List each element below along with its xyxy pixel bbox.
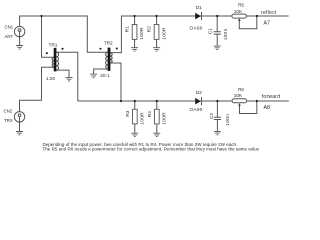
svg-text:D2: D2: [196, 90, 202, 95]
svg-text:A7: A7: [264, 21, 271, 27]
svg-text:100R: 100R: [139, 27, 145, 40]
svg-text:C2: C2: [209, 113, 215, 119]
svg-text:1:20: 1:20: [46, 76, 56, 81]
svg-text:A8: A8: [264, 105, 271, 111]
svg-text:R3: R3: [125, 110, 131, 116]
svg-text:ANT: ANT: [5, 34, 14, 39]
svg-text:TR1: TR1: [49, 42, 58, 47]
svg-text:OA90: OA90: [190, 107, 203, 112]
svg-text:100R: 100R: [162, 112, 168, 125]
svg-text:20:1: 20:1: [100, 73, 110, 78]
svg-text:R2: R2: [147, 26, 153, 32]
svg-text:forward: forward: [262, 94, 280, 100]
svg-text:R1: R1: [125, 26, 131, 32]
svg-text:100n: 100n: [225, 114, 231, 126]
svg-text:The R5 and R6 needs a powermet: The R5 and R6 needs a powermeter for cor…: [43, 147, 260, 152]
svg-text:CN1: CN1: [5, 25, 14, 30]
svg-text:10K: 10K: [234, 93, 243, 98]
svg-text:D1: D1: [196, 5, 202, 10]
svg-text:TRX: TRX: [4, 118, 13, 123]
svg-text:100n: 100n: [223, 28, 229, 40]
svg-text:100R: 100R: [140, 112, 146, 125]
svg-text:OA90: OA90: [190, 25, 203, 30]
svg-text:100R: 100R: [161, 27, 167, 40]
svg-text:R5: R5: [238, 3, 244, 8]
svg-text:CN2: CN2: [4, 109, 13, 114]
svg-text:R6: R6: [238, 87, 244, 92]
svg-text:R4: R4: [147, 111, 153, 117]
svg-text:C1: C1: [208, 28, 214, 34]
svg-text:reflect: reflect: [261, 10, 277, 16]
svg-text:10K: 10K: [234, 9, 243, 14]
svg-text:TR2: TR2: [104, 41, 113, 46]
